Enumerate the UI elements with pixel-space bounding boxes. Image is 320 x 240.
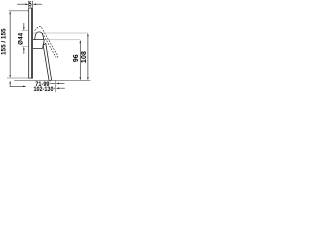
- handle body / sleeve: [33, 40, 44, 49]
- escutcheon plate (side view): [29, 8, 33, 78]
- lever (solid, pointing down): [43, 43, 51, 80]
- extension line top of dashed dome to 108: [33, 32, 88, 34]
- svg-text:Ø44: Ø44: [18, 32, 25, 45]
- extension line top of body to 96: [45, 39, 81, 41]
- 155/155 dimension line: [9, 14, 11, 74]
- svg-text:96: 96: [73, 54, 80, 62]
- dim 108 line: [87, 37, 89, 77]
- dashed lever tip: [56, 56, 58, 57]
- dashed lever trailing edge: [42, 33, 56, 58]
- bottom-left right arrow: [23, 86, 26, 88]
- Ø44 extension ticks: [22, 31, 29, 47]
- svg-text:102-130: 102-130: [34, 86, 54, 93]
- Ø44 upper stem/arrow (pointing down): [23, 23, 25, 27]
- svg-text:108: 108: [81, 51, 88, 63]
- plate inner edge: [31, 8, 33, 78]
- dim 5 right arrow: [36, 3, 42, 5]
- dim 5 extension bars: [29, 1, 33, 7]
- dashed dome (swung position): [35, 27, 58, 57]
- handle dome (solid, closed position): [35, 32, 44, 40]
- Ø44 lower stem/arrow (pointing up): [23, 50, 25, 54]
- dim 96 line: [79, 44, 81, 77]
- dim 5 left arrow: [17, 3, 26, 5]
- 155 top extension line: [9, 10, 29, 12]
- baseline: [14, 79, 90, 81]
- bottom-left up arrow at baseline: [10, 84, 24, 86]
- shared right extension bar: [54, 80, 56, 92]
- svg-text:155 / 155: 155 / 155: [1, 28, 8, 55]
- 155 bottom extension line (plate bottom): [7, 77, 29, 79]
- svg-text:5: 5: [29, 0, 32, 9]
